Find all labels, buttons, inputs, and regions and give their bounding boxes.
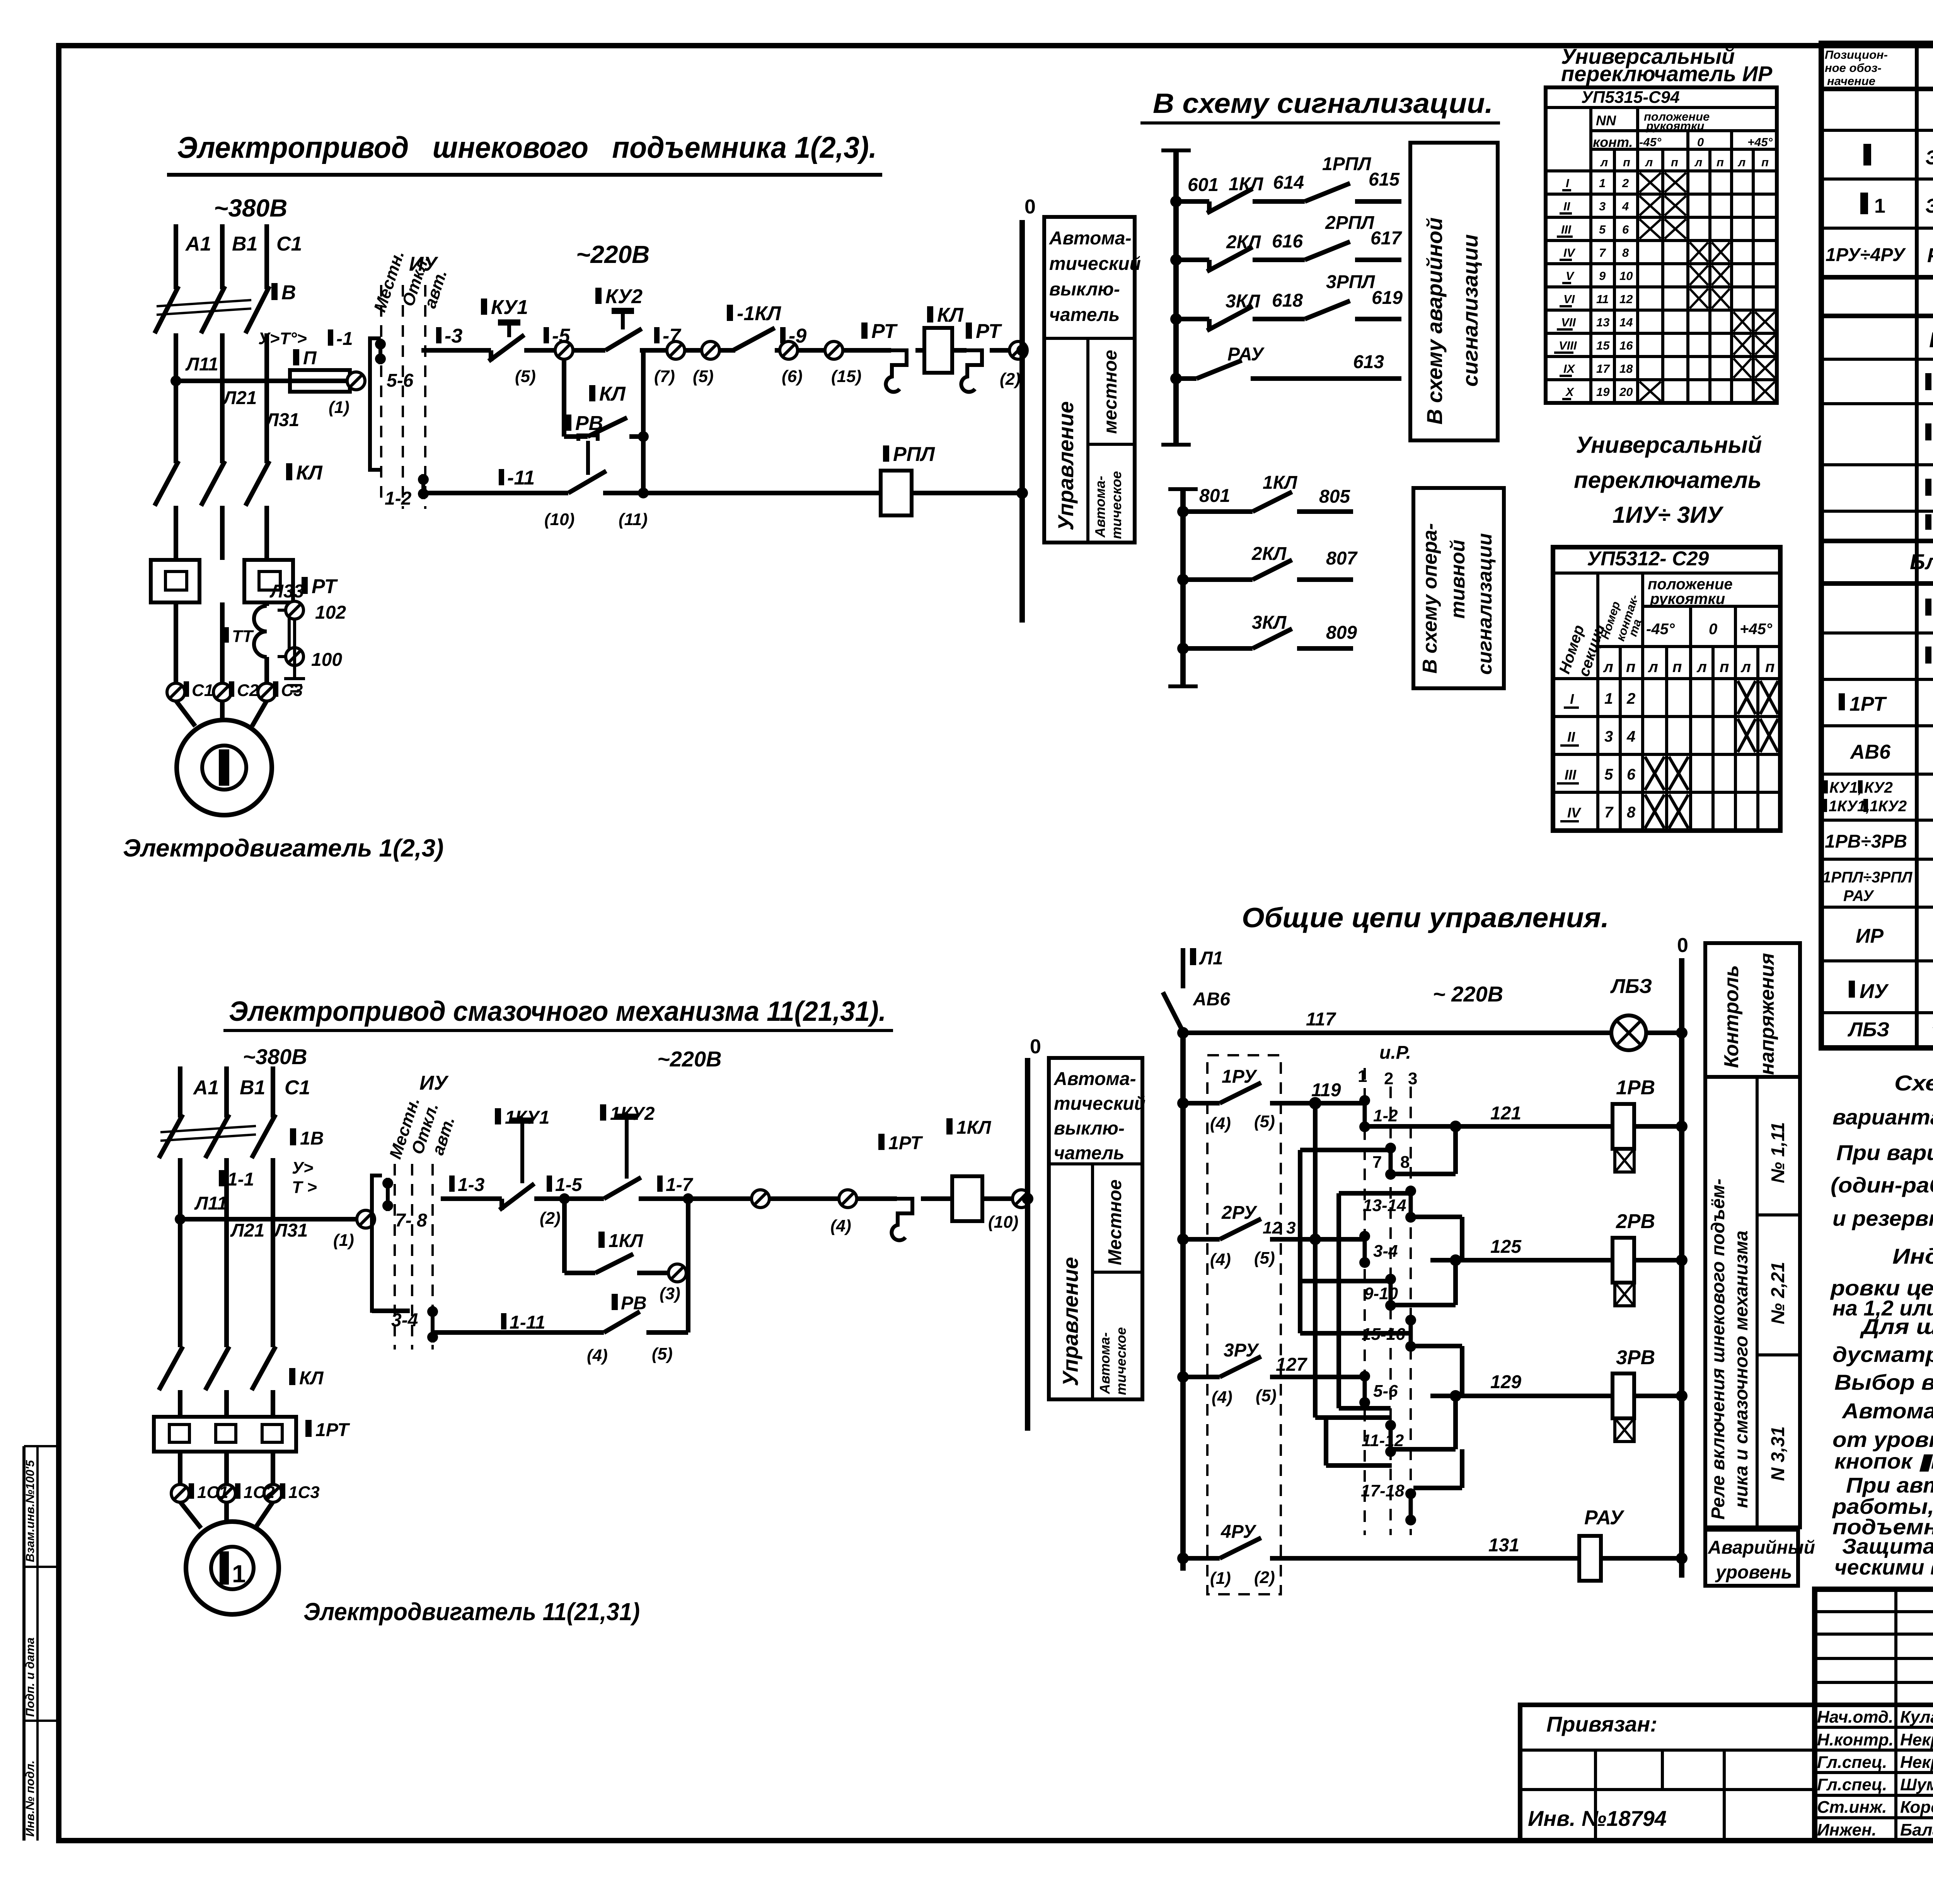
svg-text:В схему аварийной: В схему аварийной <box>1422 217 1447 425</box>
svg-text:8: 8 <box>1400 1153 1410 1172</box>
svg-text:N 3,31: N 3,31 <box>1768 1426 1788 1481</box>
svg-text:X: X <box>1565 385 1575 399</box>
svg-text:ЛБЗ: ЛБЗ <box>1847 1019 1889 1041</box>
svg-text:УП5312- С29: УП5312- С29 <box>1587 548 1709 570</box>
svg-text:613: 613 <box>1353 352 1384 372</box>
svg-text:Инв.№ подл.: Инв.№ подл. <box>23 1761 37 1837</box>
svg-text:(4): (4) <box>587 1346 608 1365</box>
svg-text:2РВ: 2РВ <box>1616 1210 1655 1233</box>
svg-text:Л33: Л33 <box>269 581 304 602</box>
svg-text:С1: С1 <box>285 1077 310 1099</box>
svg-text:-45°: -45° <box>1646 621 1675 638</box>
svg-text:КУ1: КУ1 <box>491 296 528 319</box>
svg-text:6: 6 <box>1627 766 1636 783</box>
svg-text:~ 220В: ~ 220В <box>1433 982 1503 1006</box>
svg-text:РАУ: РАУ <box>1843 887 1875 904</box>
svg-text:РВ: РВ <box>621 1293 647 1314</box>
svg-text:1РУ÷4РУ: 1РУ÷4РУ <box>1826 245 1906 265</box>
svg-text:617: 617 <box>1370 228 1402 249</box>
svg-text:-1: -1 <box>336 329 353 349</box>
svg-text:127: 127 <box>1276 1355 1307 1375</box>
svg-text:КУ1,: КУ1, <box>1829 779 1862 796</box>
svg-text:+45°: +45° <box>1747 135 1773 149</box>
svg-text:3: 3 <box>1408 1069 1417 1088</box>
svg-text:2: 2 <box>1384 1069 1393 1088</box>
svg-text:Управление: Управление <box>1058 1257 1082 1386</box>
svg-text:(6): (6) <box>782 367 803 386</box>
svg-text:1-11: 1-11 <box>510 1312 545 1333</box>
svg-text:Т >: Т > <box>292 1178 317 1197</box>
svg-text:4: 4 <box>1626 728 1635 745</box>
svg-text:131: 131 <box>1488 1535 1519 1556</box>
svg-text:801: 801 <box>1199 486 1230 506</box>
svg-text:Электродвигатель 1(2,3): Электродвигатель 1(2,3) <box>123 834 444 862</box>
svg-text:1КЛ: 1КЛ <box>609 1231 643 1251</box>
svg-text:Реле включения шнекового подъё: Реле включения шнекового подъём- <box>1708 1179 1728 1520</box>
svg-text:~220В: ~220В <box>657 1047 722 1071</box>
svg-text:809: 809 <box>1326 623 1357 643</box>
svg-text:9-10: 9-10 <box>1364 1284 1398 1303</box>
svg-text:сигнализации: сигнализации <box>1474 533 1496 675</box>
svg-text:(11): (11) <box>619 510 648 529</box>
svg-text:Универсальный: Универсальный <box>1576 432 1762 458</box>
svg-text:1С2: 1С2 <box>244 1483 275 1502</box>
svg-text:конт.: конт. <box>1593 134 1633 150</box>
svg-text:У>: У> <box>292 1158 314 1177</box>
svg-text:Электродвигатель АР22 14 380В,: Электродвигатель АР22 14 380В, 0.8 квт. <box>1925 195 1933 217</box>
svg-text:ИУ: ИУ <box>1860 980 1889 1003</box>
svg-text:(4): (4) <box>1212 1388 1232 1407</box>
svg-text:Схема автоматики шнековых п: Схема автоматики шнековых подъемников пр… <box>1894 1071 1933 1095</box>
svg-text:~220В: ~220В <box>576 241 649 268</box>
svg-text:14: 14 <box>1619 316 1633 329</box>
svg-text:и резервный шнековый под'ем: и резервный шнековый под'емник включаетс… <box>1832 1206 1933 1230</box>
svg-text:1КЛ: 1КЛ <box>956 1117 991 1138</box>
svg-text:20: 20 <box>1619 385 1633 399</box>
svg-text:тический: тический <box>1054 1094 1145 1114</box>
svg-text:5-6: 5-6 <box>1373 1382 1398 1401</box>
svg-text:Л31: Л31 <box>265 410 299 430</box>
svg-text:-9: -9 <box>789 325 806 347</box>
svg-text:-3: -3 <box>445 325 462 347</box>
svg-text:л: л <box>1603 659 1613 676</box>
svg-text:Некрасов: Некрасов <box>1900 1730 1933 1749</box>
svg-text:0: 0 <box>1024 196 1036 218</box>
svg-text:125: 125 <box>1490 1237 1522 1257</box>
svg-text:(4): (4) <box>1210 1250 1231 1269</box>
svg-text:IX: IX <box>1563 362 1576 375</box>
svg-text:Л21: Л21 <box>222 388 257 408</box>
svg-text:1РТ: 1РТ <box>888 1133 923 1153</box>
svg-text:№ 2,21: № 2,21 <box>1768 1262 1788 1324</box>
svg-text:614: 614 <box>1273 172 1304 193</box>
svg-text:КЛ: КЛ <box>599 383 626 405</box>
svg-text:п: п <box>1623 155 1630 169</box>
svg-text:переключатель ИР: переключатель ИР <box>1561 61 1773 86</box>
svg-text:Выбор вида управления осуще: Выбор вида управления осуществляется изб… <box>1834 1370 1933 1394</box>
svg-text:дусматривается 2 вида управле: дусматривается 2 вида управления: местно… <box>1832 1342 1933 1367</box>
svg-text:12: 12 <box>1619 292 1633 306</box>
svg-text:(один-рабочий, один-резервный): (один-рабочий, один-резервный), замер ур… <box>1831 1173 1933 1197</box>
svg-text:7: 7 <box>1604 804 1614 821</box>
svg-text:ИУ: ИУ <box>409 253 438 275</box>
svg-text:1: 1 <box>1604 690 1613 707</box>
svg-text:15: 15 <box>1596 339 1610 352</box>
svg-text:РВ: РВ <box>575 412 603 435</box>
svg-text:0: 0 <box>1677 934 1688 957</box>
svg-text:6: 6 <box>1622 223 1629 236</box>
svg-text:(5): (5) <box>1256 1386 1277 1405</box>
svg-text:(5): (5) <box>515 367 536 386</box>
svg-text:Контроль: Контроль <box>1720 965 1743 1068</box>
svg-text:IV: IV <box>1567 805 1582 821</box>
svg-text:~380В: ~380В <box>214 194 287 222</box>
svg-text:IV: IV <box>1563 246 1576 259</box>
svg-text:сигнализации: сигнализации <box>1458 234 1482 387</box>
svg-text:кнопок ▮КУ и ▮1КУ.: кнопок ▮КУ и ▮1КУ. <box>1834 1449 1933 1473</box>
svg-text:При автоматическом управлени: При автоматическом управлении предусмотр… <box>1846 1473 1933 1497</box>
svg-text:тическое: тическое <box>1108 471 1124 539</box>
svg-text:3КЛ: 3КЛ <box>1252 612 1287 633</box>
svg-text:3РПЛ: 3РПЛ <box>1326 272 1375 292</box>
svg-text:(1): (1) <box>329 398 349 417</box>
svg-text:(7): (7) <box>654 367 675 386</box>
svg-text:1-2: 1-2 <box>1373 1106 1398 1125</box>
svg-text:(10): (10) <box>544 510 574 529</box>
svg-text:1КУ2: 1КУ2 <box>610 1104 655 1124</box>
svg-text:С1: С1 <box>276 233 302 255</box>
svg-text:Управление: Управление <box>1053 401 1078 531</box>
svg-text:5-6: 5-6 <box>387 370 414 391</box>
svg-text:7- 8: 7- 8 <box>395 1210 427 1231</box>
svg-text:ИР: ИР <box>1856 925 1884 947</box>
svg-text:II: II <box>1567 729 1575 745</box>
svg-text:Ст.инж.: Ст.инж. <box>1817 1798 1887 1817</box>
svg-text:л: л <box>1737 155 1745 169</box>
svg-text:А1: А1 <box>193 1077 219 1099</box>
svg-text:NN: NN <box>1596 113 1616 128</box>
svg-text:I: I <box>1566 176 1570 190</box>
svg-text:КУ2: КУ2 <box>605 285 643 308</box>
svg-text:11: 11 <box>1596 292 1609 306</box>
svg-text:3-4: 3-4 <box>1373 1242 1398 1261</box>
svg-text:117: 117 <box>1306 1009 1336 1030</box>
svg-text:№ 1,11: № 1,11 <box>1768 1122 1788 1183</box>
svg-text:1РТ: 1РТ <box>315 1420 350 1440</box>
svg-text:тическое: тическое <box>1113 1327 1129 1395</box>
svg-text:ческими выключателями.: ческими выключателями. <box>1834 1555 1933 1579</box>
svg-text:РАУ: РАУ <box>1584 1506 1625 1529</box>
svg-text:12 3: 12 3 <box>1263 1218 1296 1237</box>
svg-text:19: 19 <box>1596 385 1610 399</box>
svg-text:С3: С3 <box>281 681 303 700</box>
svg-text:В схему опера-: В схему опера- <box>1419 523 1441 674</box>
svg-text:Автома-: Автома- <box>1049 228 1132 249</box>
svg-text:л: л <box>1694 155 1702 169</box>
svg-text:РТ: РТ <box>871 320 898 343</box>
svg-text:Электропривод смазочного мех: Электропривод смазочного механизма 11(21… <box>229 996 886 1027</box>
svg-text:варианта: два - рабочих, один: варианта: два - рабочих, один - резервны… <box>1832 1105 1933 1129</box>
svg-text:8: 8 <box>1622 246 1629 259</box>
svg-text:(5): (5) <box>1254 1112 1275 1131</box>
svg-text:Подп. и дата: Подп. и дата <box>23 1638 37 1717</box>
svg-text:С1: С1 <box>192 681 213 700</box>
svg-text:Л31: Л31 <box>273 1220 308 1241</box>
svg-text:5: 5 <box>1604 766 1613 783</box>
svg-text:Н.контр.: Н.контр. <box>1817 1730 1894 1749</box>
svg-text:VI: VI <box>1563 292 1575 306</box>
svg-text:2РПЛ: 2РПЛ <box>1325 213 1374 233</box>
svg-text:III: III <box>1565 767 1577 783</box>
svg-text:1КЛ: 1КЛ <box>1229 174 1263 194</box>
svg-text:Некрасов: Некрасов <box>1900 1753 1933 1772</box>
svg-text:601: 601 <box>1188 175 1219 195</box>
svg-text:п: п <box>1626 659 1635 676</box>
svg-text:3КЛ: 3КЛ <box>1226 291 1260 312</box>
svg-text:18: 18 <box>1619 362 1633 375</box>
svg-text:РАУ: РАУ <box>1227 344 1265 365</box>
svg-text:Местное: Местное <box>1105 1179 1125 1265</box>
svg-text:-7: -7 <box>663 325 681 347</box>
svg-text:ТТ: ТТ <box>232 627 254 646</box>
svg-text:13: 13 <box>1596 316 1609 329</box>
svg-text:л: л <box>1600 155 1608 169</box>
svg-text:Автоматическое управление ос: Автоматическое управление осуществляется… <box>1841 1399 1933 1423</box>
svg-text:1РПЛ÷3РПЛ: 1РПЛ÷3РПЛ <box>1822 869 1913 886</box>
svg-text:В схему сигнализации.: В схему сигнализации. <box>1153 88 1493 119</box>
svg-text:13-14: 13-14 <box>1363 1196 1406 1215</box>
svg-text:Инжен.: Инжен. <box>1817 1820 1877 1839</box>
svg-text:1-2: 1-2 <box>385 488 412 509</box>
svg-text:3РУ: 3РУ <box>1224 1340 1260 1361</box>
svg-text:I: I <box>1570 691 1574 707</box>
svg-text:Автома-: Автома- <box>1097 1332 1113 1394</box>
svg-text:3РВ: 3РВ <box>1616 1346 1655 1369</box>
svg-text:Автома-: Автома- <box>1053 1069 1136 1089</box>
svg-text:807: 807 <box>1326 548 1358 569</box>
svg-text:(1): (1) <box>333 1231 354 1250</box>
svg-text:1В: 1В <box>300 1128 324 1149</box>
svg-text:0: 0 <box>1030 1036 1041 1058</box>
svg-text:2: 2 <box>1626 690 1635 707</box>
svg-text:(2): (2) <box>1254 1568 1275 1587</box>
svg-text:1КЛ: 1КЛ <box>1263 473 1297 493</box>
svg-text:4РУ: 4РУ <box>1220 1522 1257 1542</box>
svg-text:7: 7 <box>1599 246 1606 259</box>
svg-text:1-7: 1-7 <box>666 1175 694 1195</box>
svg-text:УП5315-С94: УП5315-С94 <box>1581 88 1680 107</box>
svg-text:л: л <box>1696 659 1707 676</box>
svg-text:Л11: Л11 <box>194 1193 227 1214</box>
svg-text:2РУ: 2РУ <box>1221 1203 1258 1223</box>
svg-text:Гл.спец.: Гл.спец. <box>1817 1753 1887 1772</box>
svg-text:РТ: РТ <box>976 320 1002 343</box>
svg-text:3: 3 <box>1604 728 1613 745</box>
svg-text:начение: начение <box>1827 74 1875 88</box>
svg-text:тический: тический <box>1049 254 1141 274</box>
svg-text:Индекс „▮” в левой части обо: Индекс „▮” в левой части обозначения апп… <box>1892 1244 1933 1268</box>
svg-text:напряжения: напряжения <box>1756 953 1778 1075</box>
svg-text:Электропривод шнекового по: Электропривод шнекового подъемника 1(2,3… <box>177 130 877 164</box>
svg-text:VII: VII <box>1561 316 1576 329</box>
svg-text:121: 121 <box>1490 1103 1521 1124</box>
svg-text:переключатель: переключатель <box>1574 467 1761 493</box>
svg-text:АВ6: АВ6 <box>1849 741 1891 763</box>
svg-text:п: п <box>1671 155 1678 169</box>
svg-text:8: 8 <box>1627 804 1636 821</box>
svg-text:В: В <box>281 282 296 304</box>
svg-text:1: 1 <box>1599 176 1606 190</box>
svg-text:выклю-: выклю- <box>1049 279 1120 300</box>
svg-text:п: п <box>1761 155 1769 169</box>
svg-text:При варианте насосной станц: При варианте насосной станции с двумя шн… <box>1836 1140 1933 1165</box>
svg-text:Л11: Л11 <box>185 354 218 375</box>
svg-text:П: П <box>303 348 317 369</box>
svg-text:л: л <box>1645 155 1653 169</box>
svg-text:ное обоз-: ное обоз- <box>1825 61 1882 75</box>
svg-text:7: 7 <box>1372 1153 1382 1172</box>
svg-text:III: III <box>1561 223 1572 236</box>
svg-text:0: 0 <box>1697 135 1704 149</box>
svg-text:Королева: Королева <box>1900 1798 1933 1817</box>
svg-text:уровень: уровень <box>1715 1562 1792 1583</box>
svg-text:805: 805 <box>1319 486 1350 507</box>
svg-text:1ИУ÷ 3ИУ: 1ИУ÷ 3ИУ <box>1613 502 1724 528</box>
svg-text:1-3: 1-3 <box>458 1175 485 1195</box>
svg-text:Позицион-: Позицион- <box>1825 48 1888 61</box>
svg-text:1КУ2: 1КУ2 <box>1870 798 1907 815</box>
svg-text:616: 616 <box>1272 231 1303 252</box>
svg-text:Нач.отд.: Нач.отд. <box>1817 1708 1893 1727</box>
svg-text:Шумилов: Шумилов <box>1900 1775 1933 1794</box>
svg-text:1КУ1: 1КУ1 <box>505 1107 549 1128</box>
svg-text:1РПЛ: 1РПЛ <box>1322 154 1371 174</box>
svg-text:В1: В1 <box>240 1077 265 1099</box>
svg-text:(10): (10) <box>988 1213 1018 1232</box>
svg-text:Привязан:: Привязан: <box>1546 1712 1657 1736</box>
svg-text:Кулагин: Кулагин <box>1900 1708 1933 1727</box>
svg-text:1РТ: 1РТ <box>1849 693 1887 715</box>
svg-text:Автома-: Автома- <box>1092 476 1108 538</box>
svg-text:1С3: 1С3 <box>288 1483 320 1502</box>
svg-text:129: 129 <box>1490 1372 1521 1392</box>
svg-text:~380В: ~380В <box>243 1044 307 1069</box>
svg-text:п: п <box>1717 155 1724 169</box>
svg-text:16: 16 <box>1619 339 1633 352</box>
svg-text:619: 619 <box>1372 288 1403 308</box>
svg-text:чатель: чатель <box>1049 305 1120 325</box>
svg-text:В1: В1 <box>232 233 257 255</box>
svg-text:Общие цепи управления.: Общие цепи управления. <box>1242 903 1609 933</box>
svg-text:1РВ: 1РВ <box>1616 1077 1655 1099</box>
svg-text:1РВ÷3РВ: 1РВ÷3РВ <box>1825 831 1907 852</box>
svg-text:1-1: 1-1 <box>227 1169 254 1190</box>
svg-text:-11: -11 <box>507 467 535 489</box>
svg-text:Л21: Л21 <box>230 1220 264 1241</box>
svg-text:1-5: 1-5 <box>555 1175 583 1195</box>
svg-text:Аварийный: Аварийный <box>1708 1537 1815 1558</box>
svg-text:п: п <box>1672 659 1682 676</box>
svg-text:-45°: -45° <box>1639 135 1662 149</box>
svg-text:л: л <box>1740 659 1751 676</box>
svg-text:Балашова: Балашова <box>1900 1820 1933 1839</box>
svg-text:1С1: 1С1 <box>197 1483 228 1502</box>
svg-text:10: 10 <box>1619 269 1633 283</box>
svg-text:(2): (2) <box>540 1209 561 1228</box>
svg-text:VIII: VIII <box>1559 339 1577 352</box>
svg-text:17: 17 <box>1596 362 1610 375</box>
svg-text:А1: А1 <box>185 233 211 255</box>
svg-text:618: 618 <box>1272 290 1303 311</box>
svg-text:КУ2: КУ2 <box>1864 779 1893 796</box>
svg-text:2: 2 <box>1622 176 1629 190</box>
svg-text:Блок управления РБУ5101-33Г2Б: Блок управления РБУ5101-33Г2Б <box>1929 328 1933 352</box>
svg-text:(5): (5) <box>652 1344 673 1363</box>
svg-text:ИУ: ИУ <box>419 1072 449 1094</box>
svg-text:КЛ: КЛ <box>296 462 323 484</box>
svg-text:Взам.инв.№100'5: Взам.инв.№100'5 <box>23 1460 37 1562</box>
svg-text:Л1: Л1 <box>1199 948 1223 969</box>
svg-text:ЛБЗ: ЛБЗ <box>1610 975 1652 998</box>
svg-text:РТ: РТ <box>312 575 338 598</box>
svg-text:выклю-: выклю- <box>1054 1118 1125 1139</box>
svg-text:п: п <box>1765 659 1774 676</box>
svg-text:КЛ: КЛ <box>299 1368 324 1389</box>
svg-text:0: 0 <box>1709 621 1717 638</box>
svg-text:1: 1 <box>1874 195 1885 217</box>
svg-text:местное: местное <box>1100 350 1121 434</box>
svg-text:(1): (1) <box>1210 1569 1231 1588</box>
svg-text:4: 4 <box>1622 200 1629 213</box>
svg-text:100: 100 <box>311 650 342 670</box>
svg-text:С2: С2 <box>237 681 259 700</box>
svg-text:(4): (4) <box>1210 1114 1231 1133</box>
svg-text:II: II <box>1563 200 1571 213</box>
svg-text:Электродвигатель F280S-0.6, 38: Электродвигатель F280S-0.6, 380В 55квт <box>1925 147 1933 169</box>
svg-text:(3): (3) <box>660 1284 680 1303</box>
svg-text:615: 615 <box>1369 169 1400 190</box>
svg-text:2КЛ: 2КЛ <box>1251 544 1287 564</box>
svg-text:чатель: чатель <box>1054 1143 1124 1164</box>
svg-text:Местн.: Местн. <box>370 248 408 314</box>
svg-text:(15): (15) <box>831 367 861 386</box>
svg-text:рукоятки: рукоятки <box>1650 590 1725 607</box>
svg-text:-5: -5 <box>552 325 570 347</box>
svg-text:1: 1 <box>232 1560 246 1588</box>
svg-text:3-4: 3-4 <box>391 1310 418 1331</box>
svg-text:-1КЛ: -1КЛ <box>737 302 781 325</box>
svg-text:Электродвигатель 11(21,31): Электродвигатель 11(21,31) <box>303 1598 640 1626</box>
svg-text:РПЛ: РПЛ <box>893 443 935 466</box>
svg-text:л: л <box>1648 659 1658 676</box>
svg-text:и.Р.: и.Р. <box>1379 1042 1411 1063</box>
svg-text:V: V <box>1566 269 1575 283</box>
svg-text:Реле уровня РУ-2М: Реле уровня РУ-2М <box>1927 244 1933 267</box>
svg-text:Инв. №18794: Инв. №18794 <box>1528 1806 1667 1831</box>
svg-text:КЛ: КЛ <box>937 304 964 326</box>
svg-text:(2): (2) <box>1000 370 1021 389</box>
svg-text:9: 9 <box>1599 269 1606 283</box>
svg-text:(5): (5) <box>693 367 714 386</box>
svg-text:102: 102 <box>315 602 346 623</box>
svg-text:2КЛ: 2КЛ <box>1226 232 1261 253</box>
svg-text:1РУ: 1РУ <box>1222 1066 1258 1087</box>
svg-text:ника и смазочного механизма: ника и смазочного механизма <box>1731 1230 1752 1508</box>
svg-text:Для шнековых подъемников и: Для шнековых подъемников и их смазочных … <box>1860 1314 1933 1339</box>
svg-text:(5): (5) <box>1254 1249 1275 1268</box>
svg-text:Блок управления БОУ5130-247: Блок управления БОУ5130-2474г-УХЛ 4в <box>1910 549 1933 574</box>
svg-text:тивной: тивной <box>1447 540 1469 619</box>
